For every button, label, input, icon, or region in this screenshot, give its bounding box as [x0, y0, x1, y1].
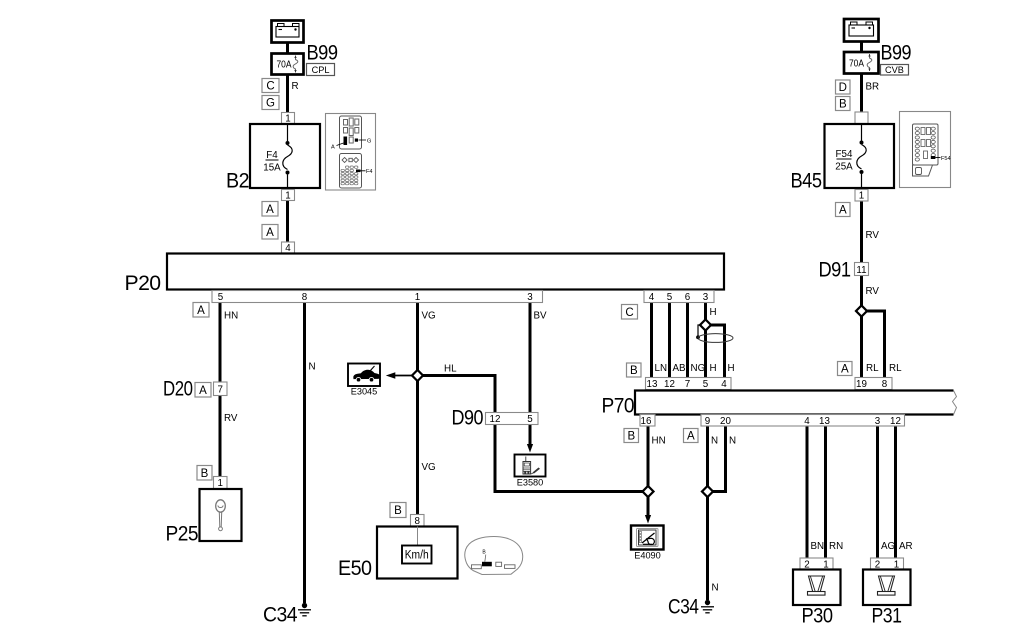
svg-text:NG: NG — [691, 363, 706, 374]
wire N: P20 pin 8 to ground C34 — [303, 302, 306, 603]
connector unit P70 (torn right edge) — [635, 391, 954, 415]
P70 bottom pin strip (9 20 4 13 3 12) — [701, 415, 905, 427]
svg-text:3: 3 — [875, 416, 881, 427]
svg-text:A: A — [199, 385, 207, 397]
twisted pair hook — [698, 325, 701, 336]
connector letter B of P70 top — [627, 363, 642, 377]
svg-text:B: B — [627, 431, 635, 443]
svg-text:13: 13 — [647, 379, 658, 390]
node: HN/HL diamond — [642, 486, 653, 497]
svg-text:20: 20 — [720, 416, 731, 427]
svg-text:N: N — [712, 583, 719, 594]
svg-text:11: 11 — [856, 265, 866, 276]
svg-text:VG: VG — [422, 311, 436, 322]
svg-text:BN: BN — [811, 541, 825, 552]
wire HN: P70 pin 16 to node — [647, 426, 650, 488]
wire RV: B45 pin 1 to D91 pin 11 — [860, 200, 863, 263]
svg-text:C: C — [625, 307, 633, 319]
svg-text:RV: RV — [866, 230, 880, 241]
svg-text:E3045: E3045 — [351, 387, 378, 397]
pin 1 of B2 (top) — [282, 113, 295, 124]
wire RL: node to P70 pin 19 — [860, 316, 863, 378]
svg-text:P70: P70 — [602, 394, 635, 418]
svg-text:AG: AG — [881, 541, 895, 552]
connector letter B of P25 — [197, 466, 212, 481]
svg-text:12: 12 — [890, 416, 901, 427]
node: RL diamond — [856, 305, 867, 316]
P30 pin strip (2 1) — [800, 558, 833, 570]
svg-text:1: 1 — [217, 478, 222, 489]
device P31 (speaker) — [863, 570, 911, 606]
wire N: node to ground C34 — [706, 496, 709, 600]
svg-text:RL: RL — [889, 363, 902, 374]
svg-text:D91: D91 — [819, 258, 851, 282]
fuse 70A right (B99) — [844, 52, 879, 74]
pin 11 of D91 — [855, 263, 869, 276]
connector letter A — [836, 203, 851, 217]
wire H: twist node to P70 pin 5 — [704, 330, 707, 377]
wire AG: P70 pin 3 to P31 pin 2 — [876, 426, 879, 559]
svg-text:HL: HL — [444, 364, 457, 375]
svg-text:D90: D90 — [452, 406, 484, 430]
svg-text:B: B — [839, 99, 847, 111]
connector letter A — [262, 225, 278, 240]
wire NG: P20-C pin 6 to P70 pin 7 — [686, 302, 689, 377]
wire battery B99 to fuse 70A (right) — [860, 40, 863, 52]
P70 connector A pin strip (19 8) — [855, 378, 892, 390]
wire H: twist node to P70 pin 4 — [710, 325, 725, 377]
svg-text:RV: RV — [866, 286, 880, 297]
svg-text:P30: P30 — [802, 604, 834, 628]
wire BR: fuse 70A to B45 pin — [860, 74, 863, 113]
svg-text:15A: 15A — [263, 163, 281, 174]
wire AB: P20-C pin 5 to P70 pin 12 — [668, 302, 671, 377]
wire HN: P20 pin 5 to D20 pin 7 — [219, 302, 222, 383]
svg-text:12: 12 — [490, 414, 501, 425]
svg-text:4: 4 — [721, 379, 727, 390]
pin 4 of P20 — [282, 242, 295, 253]
svg-text:N: N — [309, 362, 316, 373]
svg-text:A: A — [841, 364, 849, 376]
wire N: P70 pin 20 joining node — [712, 426, 726, 492]
svg-text:4: 4 — [285, 243, 291, 254]
svg-text:6: 6 — [685, 292, 691, 303]
inset: B45 fusebox illustration — [900, 112, 951, 188]
device E3580 (phone) — [515, 455, 546, 477]
connector letter A of P20 — [193, 303, 209, 318]
svg-text:BR: BR — [866, 82, 880, 93]
svg-text:VG: VG — [422, 462, 436, 473]
svg-text:5: 5 — [218, 292, 224, 303]
svg-text:5: 5 — [527, 414, 533, 425]
svg-text:LN: LN — [655, 363, 668, 374]
pin 1 of B45 (bottom) — [855, 190, 868, 202]
svg-text:HN: HN — [224, 311, 238, 322]
svg-text:CPL: CPL — [312, 65, 330, 75]
svg-text:N: N — [711, 436, 718, 447]
svg-text:C34: C34 — [668, 595, 699, 619]
svg-text:HN: HN — [652, 436, 666, 447]
wire RV: D91 pin 11 to node — [860, 275, 863, 307]
device P30 (speaker) — [793, 570, 841, 606]
svg-text:1: 1 — [859, 191, 864, 202]
svg-text:F54: F54 — [836, 149, 853, 160]
svg-text:G: G — [266, 98, 275, 110]
pin 8 of E50 — [411, 515, 425, 527]
svg-text:E4090: E4090 — [634, 551, 661, 561]
svg-text:3: 3 — [703, 292, 709, 303]
svg-text:AB: AB — [673, 363, 687, 374]
node: twist diamond — [700, 319, 711, 330]
svg-text:H: H — [710, 363, 717, 374]
svg-text:H: H — [728, 363, 735, 374]
ground C34 (right) — [701, 600, 714, 613]
pin box (unnumbered) of B45 — [855, 112, 868, 124]
label box CPL — [307, 64, 335, 76]
wire H: P20-C pin 3 to twist node — [704, 302, 707, 320]
svg-text:1: 1 — [285, 191, 290, 202]
svg-text:E50: E50 — [338, 556, 372, 580]
svg-text:AR: AR — [899, 541, 913, 552]
P20 connector C pin strip (4 5 6 3) — [644, 291, 714, 303]
svg-text:1: 1 — [285, 114, 290, 125]
connector letter A (pins 9,20) — [684, 429, 699, 443]
svg-text:25A: 25A — [835, 162, 853, 173]
P70 pin 16 box — [640, 415, 655, 427]
device E50 (instrument cluster Km/h) — [377, 527, 458, 579]
svg-text:P25: P25 — [166, 522, 199, 546]
fusebox B45 with fuse F54 25A — [825, 124, 895, 188]
label box CVB — [881, 65, 909, 76]
svg-text:Km/h: Km/h — [405, 550, 429, 562]
ground C34 (left) — [298, 603, 311, 616]
wire BN: P70 pin 4 to P30 pin 2 — [806, 426, 809, 559]
svg-text:N: N — [729, 436, 736, 447]
wire RL: node to P70 pin 8 — [866, 311, 885, 378]
svg-text:E3580: E3580 — [517, 478, 544, 488]
device P25 (ignition switch key) — [200, 489, 242, 541]
svg-text:12: 12 — [664, 379, 675, 390]
svg-text:19: 19 — [856, 379, 867, 390]
connector letter C of P20 — [622, 305, 638, 320]
wire RN: P70 pin 13 to P30 pin 1 — [824, 426, 827, 559]
P31 pin strip (2 1) — [871, 558, 904, 570]
svg-text:P31: P31 — [872, 604, 902, 628]
svg-text:A: A — [839, 205, 847, 217]
connector letter A — [262, 202, 278, 217]
svg-text:5: 5 — [667, 292, 673, 303]
connector letter D — [836, 80, 851, 94]
svg-text:8: 8 — [414, 516, 420, 527]
connector letter G — [262, 96, 279, 110]
arrowhead to E3580 — [527, 444, 533, 453]
svg-text:CVB: CVB — [885, 65, 904, 75]
pin 1 of B2 (bottom) — [282, 190, 295, 201]
svg-text:B99: B99 — [881, 41, 912, 65]
svg-text:D20: D20 — [163, 377, 193, 401]
connector letter C — [262, 79, 279, 93]
wire AR: P70 pin 12 to P31 pin 1 — [894, 426, 897, 559]
svg-text:B: B — [201, 468, 209, 480]
connector letter B (pin16) — [624, 429, 639, 443]
svg-text:13: 13 — [819, 416, 830, 427]
svg-text:7: 7 — [685, 379, 690, 390]
D90 pin strip (12 5) — [486, 413, 539, 425]
wire R: fuse 70A to B2 pin 1 — [286, 74, 289, 113]
svg-text:P20: P20 — [125, 271, 162, 295]
svg-text:RN: RN — [829, 541, 843, 552]
svg-text:A: A — [331, 145, 335, 151]
svg-text:B2: B2 — [226, 169, 249, 193]
svg-text:B45: B45 — [791, 169, 823, 193]
svg-text:D: D — [839, 82, 847, 94]
svg-text:4: 4 — [649, 292, 655, 303]
battery B99 right — [844, 19, 879, 42]
fusebox B2 with fuse F4 15A — [250, 124, 320, 188]
connector letter A of P70 right — [838, 362, 853, 376]
svg-text:F4: F4 — [366, 169, 373, 175]
svg-text:RV: RV — [224, 413, 238, 424]
P20 connector A pin strip (5 8 1 3) — [212, 291, 543, 303]
device E4090 (alarm/nav unit) — [631, 526, 664, 550]
svg-text:3: 3 — [527, 292, 533, 303]
svg-text:70A: 70A — [277, 60, 292, 71]
wire N: P70 pin 9 to node — [706, 426, 709, 488]
battery B99 left — [272, 21, 304, 43]
svg-text:4: 4 — [804, 416, 810, 427]
svg-text:H: H — [710, 307, 717, 318]
svg-text:R: R — [292, 81, 299, 92]
wire VG: P20 pin 1 to node, then to E50 pin 8 — [416, 302, 419, 371]
svg-text:B: B — [630, 365, 638, 377]
svg-text:16: 16 — [641, 416, 652, 427]
svg-text:A: A — [266, 204, 274, 216]
svg-text:7: 7 — [217, 385, 222, 396]
svg-text:A: A — [197, 305, 205, 317]
svg-text:A: A — [266, 227, 274, 239]
wire battery B99 to fuse 70A (left) — [286, 41, 289, 54]
svg-text:F54: F54 — [941, 156, 951, 162]
svg-text:B99: B99 — [307, 41, 338, 65]
wire RV: D20 pin 7 to P25 pin 1 — [219, 396, 222, 478]
connector letter B of E50 — [390, 503, 406, 518]
inset: B2 connector/fusebox illustration — [326, 114, 376, 191]
svg-text:5: 5 — [703, 379, 709, 390]
arrow to E3045 — [394, 375, 414, 377]
wire: node to E4090 (arrow) — [647, 496, 650, 515]
wire BV: P20 pin 3 to D90 pin 5 — [529, 302, 532, 424]
svg-text:A: A — [687, 431, 695, 443]
fuse 70A left (B99) — [272, 54, 304, 75]
connector letter B — [836, 97, 851, 111]
svg-text:B: B — [394, 505, 402, 517]
inset: instrument cluster back view — [465, 537, 523, 575]
P70 connector B pin strip (13 12 7 5 4) — [646, 378, 732, 390]
wire: B2 pin 1 to P20 pin 4 — [286, 199, 289, 254]
svg-text:1: 1 — [415, 292, 420, 303]
svg-text:8: 8 — [302, 292, 308, 303]
device E3045 (car body computer) — [348, 364, 380, 387]
svg-text:70A: 70A — [849, 59, 864, 70]
svg-text:C: C — [266, 81, 274, 93]
pin 1 of P25 — [214, 477, 228, 489]
svg-text:G: G — [367, 138, 371, 144]
twisted pair loop ellipse — [698, 334, 733, 343]
svg-text:9: 9 — [705, 416, 710, 427]
svg-text:8: 8 — [882, 379, 888, 390]
svg-text:BV: BV — [534, 311, 548, 322]
wire HL: node to D90 pin 12 down and right to node above E4090 — [422, 376, 646, 492]
node: N diamond — [702, 486, 713, 497]
wire: D90 pin 5 toward E3580 (arrow) — [529, 424, 532, 445]
wire LN: P20-C pin 4 to P70 pin 13 — [650, 302, 653, 377]
connector unit P20 — [167, 254, 724, 290]
svg-text:RL: RL — [866, 363, 879, 374]
svg-text:C34: C34 — [263, 603, 298, 627]
node: VG junction diamond — [412, 370, 423, 381]
svg-text:F4: F4 — [266, 150, 278, 161]
